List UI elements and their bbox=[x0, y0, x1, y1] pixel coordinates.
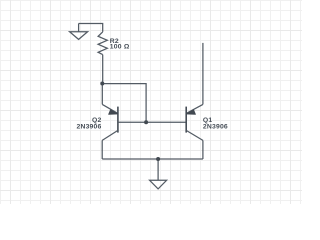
wire ground to resistor top bbox=[79, 24, 103, 32]
ground GND bottom triangle bbox=[150, 180, 167, 189]
wire Q2 collector diagonal bbox=[102, 130, 118, 140]
resistor R2 zigzag bbox=[98, 32, 107, 55]
ground GND top-left triangle bbox=[70, 32, 88, 40]
arrow Q1 emitter (PNP, points into bar) bbox=[187, 110, 196, 114]
wire Q1 collector vertical bbox=[202, 140, 204, 159]
ground GND bottom stem bbox=[157, 159, 159, 180]
ground GND top-left stem bbox=[78, 24, 80, 32]
wire Q2 collector vertical bbox=[101, 140, 103, 159]
wire base rail Q2 to Q1 bbox=[118, 121, 186, 123]
wire Q1 collector diagonal bbox=[186, 130, 203, 140]
wire Q1 emitter vertical (open top) bbox=[202, 43, 204, 105]
arrow Q2 emitter (PNP, points into bar) bbox=[109, 110, 118, 114]
junction base-rail dot bbox=[144, 120, 148, 124]
wire Q1 emitter diagonal bbox=[186, 104, 203, 113]
wire bottom rail bbox=[102, 158, 203, 160]
wire node A to base rail (right then down) bbox=[102, 84, 146, 123]
svg-text:2N3906: 2N3906 bbox=[76, 124, 101, 131]
transistor Q2 base bar bbox=[117, 107, 119, 133]
transistor Q1 base bar bbox=[185, 107, 187, 133]
wire Q2 emitter diagonal bbox=[102, 104, 118, 113]
junction node A dot bbox=[100, 82, 104, 86]
wire Q2 emitter vertical bbox=[101, 84, 103, 105]
junction bottom-rail dot bbox=[156, 157, 160, 161]
svg-text:2N3906: 2N3906 bbox=[203, 124, 228, 131]
wire resistor bottom to node A bbox=[102, 55, 104, 84]
svg-text:100 Ω: 100 Ω bbox=[110, 44, 130, 51]
